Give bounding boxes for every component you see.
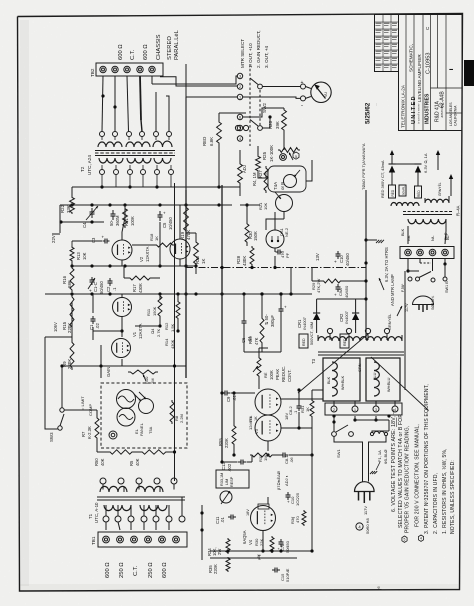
svg-text:50⁄60 Hδ: 50⁄60 Hδ bbox=[365, 517, 370, 534]
terminal strip TB2 bbox=[96, 63, 163, 76]
svg-text:RĖD: RĖD bbox=[416, 190, 421, 197]
svg-text:1CC⁄25: 1CC⁄25 bbox=[295, 492, 300, 506]
svg-text:C5: C5 bbox=[162, 222, 167, 228]
transformer T2 bottom terminals bbox=[100, 170, 105, 175]
chassis dash-dot rail bbox=[186, 267, 366, 269]
wires V1 area bbox=[92, 294, 94, 313]
wires T2 bottom to rail bbox=[101, 175, 103, 188]
svg-text:2. CAPACITORS IN UFD,: 2. CAPACITORS IN UFD, bbox=[433, 473, 439, 534]
note 5 selected values bbox=[402, 536, 407, 542]
ground hatch near plug bbox=[370, 471, 373, 474]
tube V1b bbox=[112, 339, 131, 358]
svg-text:510PÆ: 510PÆ bbox=[285, 569, 290, 582]
svg-text:PANEL: PANEL bbox=[139, 422, 144, 436]
svg-text:R17: R17 bbox=[132, 284, 137, 292]
svg-text:600 Ω: 600 Ω bbox=[162, 562, 168, 578]
svg-text:22V: 22V bbox=[51, 235, 56, 243]
svg-text:R27: R27 bbox=[258, 170, 263, 178]
svg-text:2. GAIN REDUCT,: 2. GAIN REDUCT, bbox=[256, 30, 261, 68]
diode CR left of T5 bbox=[389, 163, 396, 165]
wire rail right end down bbox=[239, 187, 241, 196]
wire C9 to V3a grid bbox=[231, 392, 256, 394]
T5 core lines bbox=[403, 211, 452, 213]
variable capacitor C4 bbox=[91, 208, 93, 212]
svg-text:ADJ ◐: ADJ ◐ bbox=[284, 475, 289, 486]
svg-text:100K: 100K bbox=[130, 216, 135, 226]
fuse F1 bbox=[374, 431, 384, 434]
transformer T2 secondary coil C bbox=[154, 158, 171, 163]
svg-text:430K: 430K bbox=[138, 283, 143, 293]
note 4 for 200V connection bbox=[418, 535, 423, 541]
svg-text:220K: 220K bbox=[213, 564, 218, 574]
vertical bus x=222 bbox=[221, 185, 223, 462]
svg-text:BLK: BLK bbox=[401, 228, 405, 236]
svg-text:10K: 10K bbox=[82, 252, 87, 260]
SW2 gang dashed link bbox=[259, 90, 261, 125]
pot R5 zigzag bbox=[257, 356, 261, 378]
svg-text:.002: .002 bbox=[227, 463, 232, 472]
svg-text:6.3V, 2A TO HTRS: 6.3V, 2A TO HTRS bbox=[384, 247, 389, 282]
svg-text:TB2: TB2 bbox=[90, 68, 95, 77]
svg-text:1. RESISTORS IN OHMS, ½W, 5%,: 1. RESISTORS IN OHMS, ½W, 5%, bbox=[441, 448, 448, 534]
wire to SW2 contact 1 bbox=[186, 76, 238, 97]
svg-text:UTC, A-10: UTC, A-10 bbox=[94, 502, 99, 523]
wire DS1 to chassis rail bbox=[274, 256, 276, 268]
bus x=186 upper segment bbox=[185, 97, 187, 190]
rail below T2 y=187 bbox=[72, 186, 240, 188]
T5 primary coil bbox=[408, 219, 446, 224]
wires T1 to TB1 bbox=[105, 522, 107, 530]
svg-text:K-2.3K: K-2.3K bbox=[87, 426, 92, 439]
heater arrows bbox=[379, 278, 384, 290]
T5 winding color tag 2 bbox=[399, 185, 406, 196]
svg-text:R–4A: R–4A bbox=[456, 205, 461, 216]
meter minus terminal bbox=[301, 96, 306, 101]
svg-text:IN4007: IN4007 bbox=[344, 310, 349, 324]
box R33 LIM RESP bbox=[216, 470, 249, 488]
tube V1a bbox=[113, 298, 132, 317]
svg-text:1K-100K: 1K-100K bbox=[269, 145, 274, 162]
wire C9 to bus x=222 bbox=[221, 392, 224, 394]
svg-text:T4A: T4A bbox=[273, 182, 278, 190]
svg-text:PARAL.LėL: PARAL.LėL bbox=[174, 29, 180, 60]
svg-text:V4: V4 bbox=[248, 539, 253, 545]
switch SW2 upper contacts 3,2,1 bbox=[237, 73, 242, 78]
svg-text:STEREO: STEREO bbox=[167, 36, 173, 60]
svg-text:μ8ʧ: μ8ʧ bbox=[257, 554, 261, 560]
note leader diagonal A bbox=[298, 334, 368, 393]
title block frame bbox=[399, 15, 463, 131]
wire jog 600ohm bbox=[166, 96, 169, 132]
svg-text:R7: R7 bbox=[81, 431, 86, 437]
svg-text:SCHEMATIC,: SCHEMATIC, bbox=[409, 44, 414, 72]
tube V2b bbox=[170, 239, 190, 259]
svg-text:R13: R13 bbox=[76, 252, 81, 260]
svg-text:INDUSTRIES: INDUSTRIES bbox=[425, 93, 431, 124]
svg-text:β7ΩʦĖΔØ: β7ΩʦĖΔØ bbox=[276, 471, 281, 490]
svg-text:1: 1 bbox=[239, 96, 241, 100]
svg-text:BLC: BLC bbox=[444, 232, 448, 240]
svg-text:SW1 B: SW1 B bbox=[445, 281, 449, 293]
resistor R24 1K bbox=[238, 162, 243, 185]
T3 core bbox=[318, 351, 404, 353]
svg-text:R5: R5 bbox=[129, 460, 134, 466]
svg-text:R11: R11 bbox=[146, 308, 151, 316]
svg-text:50-: 50- bbox=[109, 219, 114, 226]
transformer T1 core bbox=[97, 496, 185, 498]
svg-text:GRʦ⁄YĖL: GRʦ⁄YĖL bbox=[437, 182, 442, 196]
meter plus terminal bbox=[301, 84, 306, 89]
svg-text:···: ··· bbox=[374, 103, 378, 106]
tube V4 6AQ5A bbox=[251, 506, 276, 531]
svg-text:MTR SELECT: MTR SELECT bbox=[240, 39, 245, 68]
svg-text:250 Ω: 250 Ω bbox=[119, 562, 125, 578]
svg-text:2.2M: 2.2M bbox=[179, 414, 184, 423]
svg-text:+: + bbox=[301, 80, 304, 86]
svg-text:3: 3 bbox=[239, 75, 241, 79]
wire V3 cathode down bbox=[267, 441, 269, 451]
screw terminal bottom of T4 bbox=[109, 431, 117, 439]
right YEL arrow bbox=[450, 178, 452, 196]
wire stereo-parallel to SW2 contact 3 bbox=[152, 76, 238, 84]
svg-text:6. VOLTAGE TEST POINTS ARE: 18: 6. VOLTAGE TEST POINTS ARE: 18V, — bbox=[391, 408, 397, 512]
svg-text:R⁄4: R⁄4 bbox=[249, 417, 253, 423]
svg-text:F1, 1A: F1, 1A bbox=[377, 450, 382, 462]
neon lamp DS1 NE-2 bbox=[266, 230, 284, 248]
svg-text:40K: 40K bbox=[100, 458, 105, 466]
switch SW2 wiper B bbox=[258, 126, 263, 131]
svg-text:GAIN: GAIN bbox=[106, 367, 111, 377]
T3 top terminals bbox=[327, 328, 332, 333]
svg-text:GRN⁄YĖL: GRN⁄YĖL bbox=[387, 314, 392, 330]
svg-text:R55: R55 bbox=[218, 438, 223, 446]
svg-text:F,56⁄·: F,56⁄· bbox=[401, 283, 405, 292]
svg-text:.01: .01 bbox=[220, 517, 225, 523]
wires T3 down bbox=[333, 416, 335, 431]
rail y=366 gain bbox=[62, 365, 186, 367]
svg-text:+: + bbox=[163, 211, 166, 216]
svg-text:18V: 18V bbox=[246, 509, 250, 516]
svg-text:600 Ω: 600 Ω bbox=[143, 44, 149, 60]
rail y=294 bbox=[45, 293, 312, 295]
wire C5/R19 to rail bbox=[159, 222, 161, 266]
svg-text:6: 6 bbox=[239, 116, 241, 120]
svg-text:5: 5 bbox=[295, 155, 297, 159]
svg-text:40/450: 40/450 bbox=[344, 285, 349, 298]
svg-text:5: 5 bbox=[239, 127, 241, 131]
svg-text:NOTES, UNLESS SPECIFIED:: NOTES, UNLESS SPECIFIED: bbox=[450, 460, 456, 534]
T3 inner coils bbox=[332, 362, 337, 396]
svg-text:N⁄L: N⁄L bbox=[431, 236, 435, 242]
svg-text:▌: ▌ bbox=[449, 68, 453, 70]
switch SW2 lower contacts 6,5,4 bbox=[237, 114, 242, 119]
switch SW1 B bbox=[408, 277, 412, 281]
svg-text:150K: 150K bbox=[253, 231, 258, 241]
wire wiper A to meter plus bbox=[262, 86, 300, 88]
vertical x=291 bbox=[290, 268, 292, 295]
svg-text:R14: R14 bbox=[164, 338, 169, 346]
T5 secondary coil row A bbox=[391, 203, 419, 207]
svg-text:6⁄0-BLØ: 6⁄0-BLØ bbox=[383, 450, 388, 464]
svg-text:4: 4 bbox=[239, 137, 241, 141]
T1 bottom coils bbox=[104, 505, 131, 511]
svg-text:220K: 220K bbox=[67, 323, 72, 333]
svg-text:1M: 1M bbox=[263, 455, 268, 461]
svg-text:R50: R50 bbox=[94, 458, 99, 466]
T5 secondary coil row B bbox=[425, 199, 449, 203]
svg-text:6AQ5A: 6AQ5A bbox=[242, 530, 247, 544]
note leader diagonal B bbox=[371, 357, 428, 410]
svg-text:10/450: 10/450 bbox=[168, 217, 173, 230]
svg-text:C.T.: C.T. bbox=[133, 565, 139, 576]
svg-text:C4: C4 bbox=[82, 222, 87, 228]
svg-text:V1: V1 bbox=[132, 331, 137, 337]
svg-text:50/450: 50/450 bbox=[99, 281, 104, 294]
hex marker 5 near R25 bbox=[293, 152, 299, 159]
svg-text:CHASSIS: CHASSIS bbox=[156, 34, 162, 60]
resistor R8 2.2M bbox=[170, 400, 174, 424]
svg-text:RĖD 365V CT, 43mA: RĖD 365V CT, 43mA bbox=[380, 160, 385, 198]
svg-text:SELECTED VALUES TO MATCH T4A o: SELECTED VALUES TO MATCH T4A or B FOR bbox=[398, 414, 404, 528]
wire V3a plate to T3 bbox=[281, 398, 323, 400]
left margin scan streak bbox=[20, 20, 29, 586]
svg-text:TB1: TB1 bbox=[91, 536, 96, 545]
svg-text:CONT.: CONT. bbox=[287, 369, 292, 382]
svg-text:12AX7A: 12AX7A bbox=[145, 246, 150, 262]
resistor R4 1M zigzag bbox=[264, 166, 268, 193]
test point circle 4 bbox=[356, 523, 363, 530]
wires T5 primary to strip bbox=[407, 226, 409, 244]
wire R26 bottom to R25 bbox=[283, 132, 285, 150]
switch SW1 bbox=[332, 432, 337, 437]
svg-text:R12: R12 bbox=[164, 322, 169, 330]
svg-text:13V: 13V bbox=[315, 253, 320, 261]
title block inner lines bbox=[405, 15, 407, 131]
svg-text:2W: 2W bbox=[217, 549, 222, 555]
trimmer R33 circle bbox=[220, 491, 232, 503]
svg-text:C3: C3 bbox=[91, 237, 96, 243]
T5 top link wire bbox=[392, 163, 418, 165]
svg-text:2: 2 bbox=[333, 408, 335, 412]
svg-text:2.7K: 2.7K bbox=[156, 328, 161, 337]
svg-text:5/25/62: 5/25/62 bbox=[365, 102, 372, 124]
svg-text:WH⁄BLK: WH⁄BLK bbox=[341, 375, 345, 390]
svg-text:6.3V Ω, 1A: 6.3V Ω, 1A bbox=[423, 153, 428, 173]
output stage rails bbox=[210, 550, 312, 552]
boxed RED label 2 bbox=[340, 334, 349, 348]
wire to T4 box bbox=[100, 366, 102, 378]
svg-text:150K: 150K bbox=[152, 306, 157, 316]
svg-text:+: + bbox=[333, 260, 338, 263]
svg-text:+: + bbox=[102, 235, 105, 240]
svg-text:SW3: SW3 bbox=[49, 432, 54, 442]
svg-text:+: + bbox=[284, 305, 287, 310]
box T4A or B bbox=[268, 166, 306, 192]
photocell circle in T4 bbox=[139, 399, 154, 414]
svg-text:t r a n s f o r m e r: t r a n s f o r m e r bbox=[417, 103, 421, 124]
wire to SW2 contact 2 bbox=[160, 77, 238, 86]
wire V4 plate up bbox=[267, 497, 269, 504]
ground symbol chassis bbox=[366, 239, 377, 241]
terminal screw above R27 bbox=[280, 154, 287, 161]
svg-text:106V: 106V bbox=[53, 322, 58, 332]
wire rail to SW3 bbox=[61, 366, 63, 408]
svg-text:18V: 18V bbox=[284, 413, 289, 420]
svg-text:1K: 1K bbox=[254, 416, 258, 421]
svg-text:PF: PF bbox=[285, 252, 290, 258]
svg-text:6.8K: 6.8K bbox=[209, 137, 214, 146]
svg-text:C1-C: C1-C bbox=[93, 282, 98, 292]
svg-text:SW1: SW1 bbox=[336, 449, 341, 458]
svg-text:RĖ: RĖ bbox=[263, 372, 268, 378]
svg-text:RĖD: RĖD bbox=[390, 189, 395, 196]
svg-text:3: 3 bbox=[375, 408, 377, 412]
transformer T2 secondary coil B bbox=[127, 158, 151, 163]
svg-text:R4, 1M: R4, 1M bbox=[252, 172, 257, 186]
T1 top coils bbox=[100, 486, 127, 492]
svg-text:47K: 47K bbox=[254, 337, 259, 345]
svg-text:1K: 1K bbox=[305, 407, 310, 412]
svg-text:.02: .02 bbox=[95, 323, 100, 329]
svg-text:3. PATENT Nº3258707 ON PORTION: 3. PATENT Nº3258707 ON PORTIONS OF THIS … bbox=[424, 384, 430, 534]
tube V2a bbox=[112, 240, 132, 260]
svg-text:500VCT, 40M: 500VCT, 40M bbox=[310, 322, 314, 345]
svg-text:430K: 430K bbox=[242, 256, 247, 266]
lamp EL panel circle 2 bbox=[117, 408, 135, 426]
svg-text:SØ842¾: SØ842¾ bbox=[431, 295, 435, 310]
wire rail to R22 bbox=[71, 187, 73, 196]
plug SR-842 bbox=[413, 296, 434, 305]
svg-text:R28: R28 bbox=[236, 255, 241, 264]
svg-text:LIM: LIM bbox=[225, 479, 229, 485]
svg-text:REDUC.: REDUC. bbox=[281, 366, 286, 382]
svg-text:C9: C9 bbox=[226, 396, 231, 402]
svg-text:117V: 117V bbox=[405, 303, 409, 312]
svg-text:2: 2 bbox=[239, 85, 241, 89]
heater arrow up bbox=[437, 154, 439, 170]
wire V3b plate bbox=[281, 427, 312, 429]
svg-text:100K: 100K bbox=[269, 370, 274, 380]
wires tube V2 to rails bbox=[121, 232, 123, 240]
svg-text:1: 1 bbox=[354, 408, 356, 412]
svg-text:R33,1M: R33,1M bbox=[220, 473, 224, 486]
wire wiper B right bbox=[262, 117, 270, 128]
svg-text:.06: .06 bbox=[289, 457, 294, 463]
wire bus left end bbox=[59, 205, 61, 233]
svg-text:FOR 200 V CONNECTION, SEE MANU: FOR 200 V CONNECTION, SEE MANUAL, bbox=[415, 424, 421, 527]
photocell R23 circle bbox=[284, 175, 297, 188]
top bus rail y=205 bbox=[60, 204, 232, 206]
svg-text:360M: 360M bbox=[115, 215, 120, 226]
wires R24/R27 bbox=[239, 150, 241, 162]
svg-text:V2: V2 bbox=[139, 256, 144, 262]
tube V3b bbox=[255, 415, 281, 441]
switch SW2 wiper A bbox=[258, 84, 263, 89]
svg-text:380μF: 380μF bbox=[270, 315, 275, 327]
svg-text:T1: T1 bbox=[88, 513, 93, 519]
svg-text:Nʦ: Nʦ bbox=[407, 235, 411, 241]
meter M1 VU bbox=[311, 82, 331, 102]
transformer T2 secondary coil A bbox=[99, 158, 123, 163]
svg-text:C2: C2 bbox=[106, 286, 111, 292]
svg-text:○ LIMIT: ○ LIMIT bbox=[80, 396, 85, 410]
svg-text:AND MTR LAMP: AND MTR LAMP bbox=[390, 274, 395, 306]
boxed RED label bbox=[299, 334, 308, 348]
T5 HV arrow left bbox=[391, 154, 393, 164]
wires 40K resistors bbox=[96, 440, 98, 452]
svg-text:470: 470 bbox=[295, 516, 300, 523]
svg-text:UTC, A24: UTC, A24 bbox=[87, 155, 92, 175]
svg-text:10K: 10K bbox=[263, 203, 268, 210]
svg-text:39K: 39K bbox=[275, 121, 280, 129]
svg-text:C.T.: C.T. bbox=[130, 49, 136, 60]
vertical bus x=186 bbox=[185, 190, 187, 378]
transformer T1 top terminals bbox=[100, 478, 106, 484]
svg-text:40K: 40K bbox=[135, 458, 140, 466]
AC plug bbox=[355, 482, 375, 492]
lamp EL panel circle 1 bbox=[117, 390, 136, 409]
B+ vertical bus x=366 bbox=[365, 190, 367, 340]
svg-text:RESP: RESP bbox=[230, 476, 234, 487]
T3 bottom terminal strip bbox=[325, 403, 402, 415]
svg-text:V3: V3 bbox=[254, 428, 259, 434]
wires below T5 strip bbox=[407, 259, 409, 272]
wire SW3 bbox=[45, 420, 58, 429]
T5 winding color tag RED bbox=[389, 185, 396, 198]
svg-text:T5A: T5A bbox=[148, 426, 153, 434]
transformer T2 top terminals bbox=[100, 132, 105, 137]
svg-text:.01: .01 bbox=[247, 336, 252, 342]
svg-text:1K: 1K bbox=[201, 259, 206, 264]
svg-text:600 Ω: 600 Ω bbox=[105, 562, 111, 578]
svg-text:40/450: 40/450 bbox=[345, 253, 350, 266]
svg-text:3. OUT, +4: 3. OUT, +4 bbox=[264, 45, 269, 68]
svg-text:PROPER ‘05 GAIN REDUCTION’ REA: PROPER ‘05 GAIN REDUCTION’ READING, bbox=[405, 426, 411, 533]
svg-text:T3: T3 bbox=[311, 358, 316, 364]
svg-text:VU: VU bbox=[324, 92, 328, 97]
svg-text:-: - bbox=[301, 103, 303, 109]
revision table bbox=[375, 15, 399, 72]
capacitor C5 10/450 bbox=[159, 211, 161, 215]
svg-text:BLK: BLK bbox=[327, 376, 331, 384]
wire x=405 down from T5 bbox=[404, 271, 406, 390]
black tab on right edge bbox=[464, 60, 474, 86]
tube V3a bbox=[255, 389, 281, 415]
wires to plug bbox=[334, 437, 363, 482]
svg-text:4: 4 bbox=[420, 537, 422, 541]
extra wires V1 stage bbox=[159, 294, 161, 300]
rail y=222 left bbox=[60, 221, 104, 223]
rail y=266 bbox=[72, 265, 196, 267]
optical unit T4 dashed box bbox=[101, 383, 187, 448]
wire stereo to T2 terminal 5 bbox=[155, 92, 157, 132]
T3 winding boxes bbox=[323, 358, 360, 401]
svg-text:R22: R22 bbox=[60, 204, 65, 213]
T5 winding color tag RED 2 bbox=[415, 186, 422, 198]
terminal strip TB1 bbox=[98, 532, 187, 547]
T3 terminal stubs bbox=[329, 334, 331, 340]
svg-text:Ω4: Ω4 bbox=[150, 328, 155, 334]
svg-text:470K: 470K bbox=[186, 230, 191, 240]
bottom margin scan streak bbox=[20, 584, 460, 590]
svg-text:5: 5 bbox=[404, 538, 406, 542]
transformer T2 core bbox=[95, 150, 175, 152]
T3 top coil row bbox=[318, 337, 402, 341]
diode CR right of T5 bbox=[415, 163, 422, 165]
wires diodes to B+ bbox=[316, 299, 318, 305]
svg-text:PEAK: PEAK bbox=[275, 369, 280, 380]
svg-text:T2: T2 bbox=[80, 166, 85, 172]
